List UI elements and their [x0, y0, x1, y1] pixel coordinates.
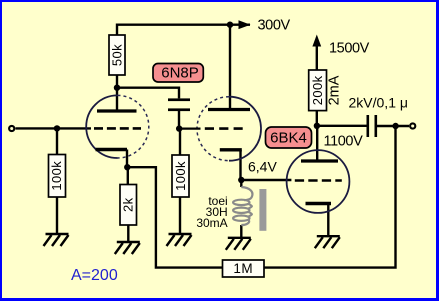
- svg-text:A=200: A=200: [71, 267, 118, 284]
- svg-text:1100V: 1100V: [324, 134, 364, 150]
- svg-text:6BK4: 6BK4: [270, 129, 307, 146]
- svg-text:100k: 100k: [49, 161, 64, 191]
- svg-text:30mA: 30mA: [196, 216, 227, 230]
- svg-text:6,4V: 6,4V: [248, 158, 277, 174]
- svg-text:200k: 200k: [310, 75, 325, 105]
- svg-text:50k: 50k: [110, 44, 125, 66]
- svg-text:2k: 2k: [121, 197, 136, 212]
- svg-text:1500V: 1500V: [329, 41, 370, 57]
- svg-text:1M: 1M: [233, 261, 253, 276]
- svg-text:6N8P: 6N8P: [161, 65, 199, 82]
- svg-text:2kV/0,1 μ: 2kV/0,1 μ: [349, 95, 408, 111]
- svg-text:300V: 300V: [258, 18, 291, 34]
- svg-text:2mA: 2mA: [327, 75, 343, 105]
- svg-text:100k: 100k: [173, 161, 188, 191]
